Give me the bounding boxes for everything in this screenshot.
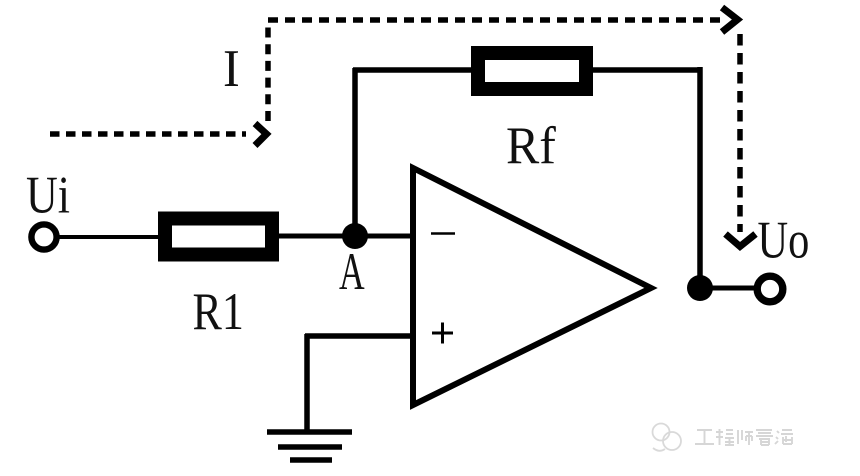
svg-text:I: I (223, 40, 240, 98)
svg-text:R1: R1 (193, 282, 244, 341)
svg-text:Uo: Uo (758, 211, 810, 270)
svg-text:Ui: Ui (26, 166, 70, 225)
svg-text:A: A (339, 242, 365, 301)
svg-text:Rf: Rf (506, 117, 557, 176)
